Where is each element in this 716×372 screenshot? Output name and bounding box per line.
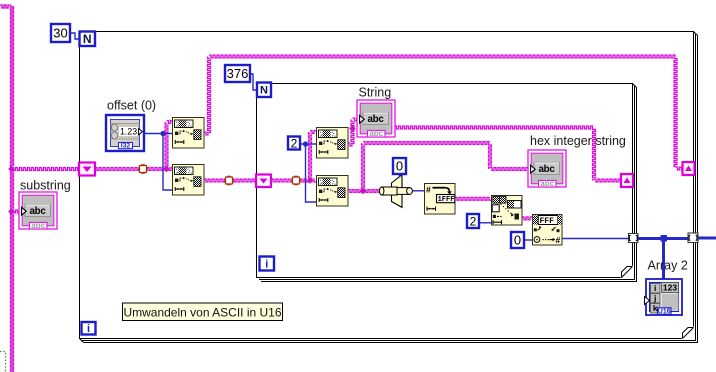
svg-text:offset (0): offset (0) [107,99,156,113]
svg-text:i: i [87,323,90,335]
svg-text:FFF: FFF [540,217,555,226]
svg-text:substring: substring [20,179,71,193]
svg-text:Umwandeln von ASCII in U16: Umwandeln von ASCII in U16 [123,305,281,319]
svg-text:String: String [359,86,392,100]
svg-text:Array 2: Array 2 [648,259,688,273]
svg-text:abc: abc [30,206,47,217]
svg-text:0: 0 [514,233,521,248]
svg-text:1.23: 1.23 [120,126,137,136]
svg-text:abc: abc [369,129,383,138]
svg-text:U16: U16 [658,308,671,315]
svg-text:abc: abc [539,164,556,175]
svg-text:2: 2 [291,136,298,150]
svg-text:i: i [654,283,656,293]
svg-text:0: 0 [396,159,403,174]
svg-text:#: # [426,185,431,195]
svg-text:30: 30 [53,26,67,41]
svg-text:2: 2 [470,214,477,228]
svg-text:abc: abc [368,114,385,125]
svg-text:1FFF: 1FFF [438,196,455,204]
svg-text:hex integer string: hex integer string [530,134,626,148]
svg-text:376: 376 [227,66,249,81]
svg-text:i: i [265,258,268,270]
svg-text:abc: abc [31,221,45,230]
svg-text:I32: I32 [121,143,131,150]
svg-text:#: # [556,235,561,245]
svg-text:j: j [653,293,656,303]
svg-text:123: 123 [663,283,677,293]
svg-text:N: N [83,32,92,46]
svg-text:abc: abc [540,179,554,188]
svg-text:N: N [260,85,268,97]
